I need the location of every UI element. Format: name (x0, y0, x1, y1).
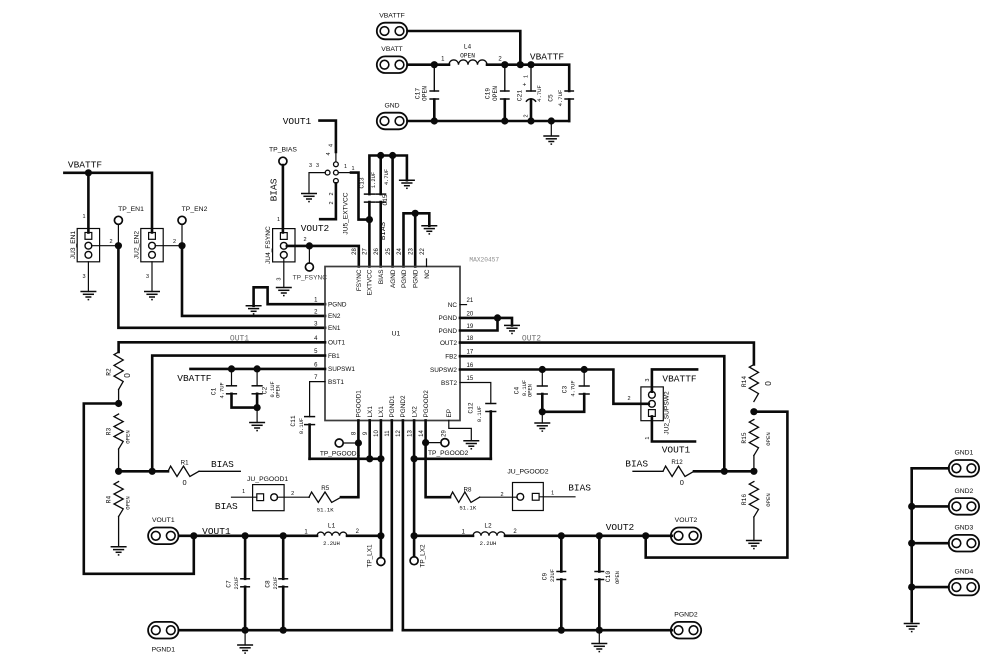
inductor L4 (449, 44, 487, 65)
test point TP_BIAS (269, 147, 297, 166)
wire JU3 pin1 (82, 173, 88, 233)
svg-text:VBATTF: VBATTF (177, 373, 212, 384)
wire JU2_SUPSW2 pin3 VBATTF (645, 369, 697, 391)
svg-text:OPEN: OPEN (765, 432, 772, 445)
wire JU5 pin2 VOUT2 stub (320, 183, 336, 219)
svg-text:AGND: AGND (390, 269, 397, 288)
svg-text:VOUT2: VOUT2 (606, 522, 635, 533)
net label BIAS right (625, 458, 648, 469)
svg-text:0: 0 (123, 373, 132, 378)
capacitor C17 (415, 65, 440, 121)
svg-text:TP_EN2: TP_EN2 (182, 206, 208, 213)
capacitor C2 (252, 369, 282, 408)
wire JU2_SUPSW2 pin1 VOUT1 (645, 416, 695, 441)
svg-text:4: 4 (326, 152, 332, 155)
ground under JU4_FSYNC (276, 258, 292, 295)
jumper JU_PGOOD2 (500, 469, 554, 511)
ground GND bus (904, 624, 920, 632)
capacitor C10 (594, 536, 621, 630)
wire EN2 (155, 224, 325, 316)
wire R5 to JU_PGOOD1 (277, 496, 309, 498)
wire LX2 to L2 (411, 530, 474, 540)
ground top section (543, 136, 559, 144)
svg-text:R5: R5 (321, 485, 329, 492)
svg-text:EXTVCC: EXTVCC (367, 269, 374, 295)
jumper JU5_EXTVCC (309, 144, 355, 235)
svg-text:L2: L2 (484, 522, 492, 529)
net label VOUT1 bottom (202, 526, 231, 537)
ground under JU3_EN1 (80, 262, 96, 300)
svg-text:23: 23 (409, 248, 415, 255)
wire VBATT to L4 (408, 57, 450, 69)
svg-text:+: + (522, 82, 529, 86)
resistor R16 (741, 482, 772, 541)
svg-text:2: 2 (329, 201, 335, 204)
net label VBATTF SUPSW1 (177, 373, 212, 384)
svg-text:FB1: FB1 (328, 353, 340, 360)
svg-text:2.2UH: 2.2UH (480, 540, 497, 547)
svg-text:1.2UF: 1.2UF (371, 172, 377, 188)
svg-text:PGND1: PGND1 (389, 395, 396, 417)
inductor L1 (304, 522, 359, 547)
svg-text:R2: R2 (106, 368, 113, 376)
svg-text:FB2: FB2 (445, 354, 457, 361)
ground under C2 (249, 423, 265, 431)
wire LX1 (310, 420, 385, 535)
svg-text:1: 1 (344, 164, 347, 170)
ground EP (463, 441, 479, 449)
wire PGND pin1 to ground (254, 287, 325, 306)
svg-text:TP_PGOOD2: TP_PGOOD2 (428, 450, 469, 457)
test point TP_FSYNC (293, 246, 328, 281)
IC U1 MAX20457 (314, 248, 499, 437)
svg-text:VOUT1: VOUT1 (283, 116, 312, 127)
connector GND4 (949, 569, 979, 596)
svg-text:TP_LX2: TP_LX2 (420, 544, 427, 568)
wire BST2 to C12 (460, 383, 491, 404)
net label BIAS JU_PGOOD1 (215, 501, 238, 512)
svg-text:L1: L1 (328, 522, 336, 529)
wire LX2 (411, 420, 491, 535)
svg-text:3: 3 (277, 278, 283, 281)
svg-text:PGND: PGND (413, 269, 420, 288)
svg-text:TP_FSYNC: TP_FSYNC (293, 274, 328, 281)
svg-text:EN2: EN2 (328, 313, 341, 320)
svg-text:JU_PGOOD2: JU_PGOOD2 (507, 469, 548, 476)
svg-text:PGOOD2: PGOOD2 (423, 390, 430, 418)
svg-text:27: 27 (363, 248, 369, 255)
svg-text:OPEN: OPEN (276, 385, 282, 398)
connector VBATT (377, 46, 407, 73)
svg-text:2: 2 (303, 237, 306, 243)
test point TP_EN1 (114, 206, 144, 224)
svg-text:VBATTF: VBATTF (662, 373, 697, 384)
svg-text:OUT2: OUT2 (440, 340, 457, 347)
svg-text:SUPSW1: SUPSW1 (328, 366, 355, 373)
svg-text:3: 3 (82, 274, 85, 280)
connector VBATTF (377, 12, 407, 39)
wire VOUT1 net (179, 532, 317, 539)
svg-text:10: 10 (374, 430, 380, 437)
svg-text:C12: C12 (467, 402, 474, 413)
capacitor C9 (542, 536, 567, 630)
svg-text:13: 13 (407, 430, 413, 437)
svg-text:OPEN: OPEN (492, 86, 499, 101)
capacitor C13 (358, 172, 377, 202)
svg-text:1: 1 (242, 489, 245, 495)
wire SUPSW1 (191, 365, 326, 372)
svg-text:4.7UF: 4.7UF (557, 90, 564, 107)
wire VOUT1 to JU5 pin4 (320, 121, 336, 162)
svg-text:C13: C13 (358, 177, 365, 188)
svg-text:C10: C10 (605, 571, 612, 582)
ground under R4 (111, 547, 127, 555)
test point TP_EN2 (178, 206, 208, 224)
svg-text:TP_LX1: TP_LX1 (367, 544, 374, 568)
svg-text:PGND: PGND (328, 302, 347, 309)
svg-text:18: 18 (467, 336, 474, 342)
wire PGOOD1 (341, 420, 362, 497)
capacitor C7 (225, 536, 250, 630)
svg-text:MAX20457: MAX20457 (469, 256, 499, 263)
svg-text:OUT1: OUT1 (328, 340, 345, 347)
svg-text:TP_EN1: TP_EN1 (118, 206, 144, 213)
connector VOUT1 (148, 517, 178, 544)
svg-text:21: 21 (467, 298, 474, 304)
resistor R14 (741, 365, 773, 402)
svg-text:19: 19 (467, 324, 474, 330)
svg-text:VOUT1: VOUT1 (152, 517, 175, 524)
svg-text:2: 2 (291, 491, 294, 497)
net label VOUT2 stub (301, 223, 330, 234)
svg-text:51.1K: 51.1K (317, 507, 334, 514)
ground under C7 (237, 630, 253, 653)
ground under C4 (534, 423, 550, 431)
svg-text:OPEN: OPEN (460, 53, 475, 60)
svg-text:0: 0 (764, 381, 773, 386)
wire VBATTF connector to node (408, 31, 521, 65)
svg-text:PGND2: PGND2 (674, 612, 698, 619)
wire L2 to VOUT2 (505, 532, 672, 539)
svg-text:TP_PGOOD1: TP_PGOOD1 (320, 450, 361, 457)
wire BST1 to C11 (310, 382, 325, 417)
resistor R5 (309, 485, 341, 514)
svg-text:C9: C9 (542, 573, 549, 581)
wire PGND2 rail (403, 627, 672, 634)
svg-text:C21: C21 (517, 90, 524, 101)
ground under JU2_EN2 (144, 262, 160, 300)
resistor R8 (450, 487, 480, 512)
svg-text:JU3_EN1: JU3_EN1 (70, 231, 77, 260)
svg-text:51.1K: 51.1K (459, 505, 476, 512)
svg-text:VOUT2: VOUT2 (301, 223, 330, 234)
wire JU5 pin3 to ground (309, 173, 325, 194)
svg-text:GND2: GND2 (954, 488, 973, 495)
svg-text:22UF: 22UF (550, 569, 556, 582)
svg-text:R1: R1 (181, 460, 189, 467)
svg-text:C7: C7 (225, 580, 232, 588)
capacitor C1 (211, 369, 258, 408)
svg-text:0: 0 (183, 478, 187, 487)
svg-text:JU_PGOOD1: JU_PGOOD1 (247, 476, 288, 483)
connector PGND1 (148, 622, 178, 654)
svg-text:OUT2: OUT2 (522, 335, 541, 344)
node C1 C2 ground junction (254, 404, 261, 423)
node R14 R15 junction (750, 408, 757, 415)
wire EXTVCC (369, 152, 407, 267)
wire PGND1 pin11 (390, 420, 393, 630)
capacitor C8 (265, 536, 289, 630)
svg-text:0: 0 (680, 478, 684, 487)
wire OUT2 (460, 343, 754, 365)
connector PGND2 (671, 612, 701, 639)
svg-text:LX2: LX2 (411, 406, 418, 418)
svg-text:GND1: GND1 (954, 450, 973, 457)
svg-text:C11: C11 (290, 415, 297, 426)
capacitor C4 (514, 370, 548, 412)
svg-text:3: 3 (316, 163, 319, 169)
jumper JU2_EN2 (133, 229, 163, 262)
ground PGND pins 23 24 (421, 226, 437, 234)
jumper JU4_FSYNC (265, 226, 295, 264)
svg-text:R8: R8 (464, 487, 472, 494)
svg-text:R15: R15 (741, 432, 748, 443)
svg-text:26: 26 (374, 248, 380, 255)
wire OUT1 (119, 342, 325, 352)
wire GND rail (408, 117, 570, 136)
test point TP_PGOOD2 (426, 439, 469, 457)
svg-text:C15: C15 (382, 194, 389, 205)
ground AGND rail (399, 180, 415, 188)
wire FB1 (152, 356, 325, 472)
resistor R12 (633, 459, 754, 487)
svg-text:C8: C8 (265, 580, 272, 588)
connector GND1 (949, 450, 979, 477)
resistor R15 (741, 420, 772, 472)
svg-text:OPEN: OPEN (615, 571, 621, 584)
svg-text:R14: R14 (741, 376, 748, 387)
svg-text:0.1UF: 0.1UF (477, 406, 483, 422)
net label OUT2 (522, 335, 541, 344)
net label BIAS pin26 (380, 221, 388, 240)
svg-text:VBATTF: VBATTF (379, 12, 405, 19)
svg-text:GND: GND (384, 102, 399, 109)
svg-text:EN1: EN1 (328, 325, 341, 332)
svg-text:29: 29 (442, 430, 448, 437)
test point TP_LX1 (367, 536, 385, 568)
capacitor C5 (548, 90, 575, 121)
net label OUT1 (230, 334, 249, 343)
svg-text:2: 2 (329, 192, 335, 195)
svg-text:C17: C17 (415, 88, 422, 99)
svg-text:BIAS: BIAS (625, 458, 648, 469)
node R3 R4 junction (115, 468, 168, 475)
capacitor C19 (485, 65, 510, 121)
svg-text:2: 2 (524, 114, 530, 117)
svg-text:OUT1: OUT1 (230, 334, 249, 343)
svg-text:C1: C1 (211, 387, 218, 395)
net label VOUT1 (283, 116, 312, 127)
wire PGND pins 23 24 (404, 210, 430, 267)
ground under C10 (591, 630, 607, 651)
svg-text:4.7UF: 4.7UF (536, 85, 543, 102)
wire EP to ground (449, 420, 472, 440)
capacitor C12 (467, 402, 496, 459)
jumper JU3_EN1 (70, 229, 100, 262)
svg-text:OPEN: OPEN (528, 384, 534, 397)
wire L1 to LX1 (347, 532, 385, 539)
svg-text:0.1UF: 0.1UF (299, 418, 305, 434)
wire PGND2 pin12 (402, 420, 405, 630)
svg-text:11: 11 (385, 430, 391, 437)
svg-text:BIAS: BIAS (268, 178, 279, 201)
svg-text:SUPSW2: SUPSW2 (430, 367, 457, 374)
svg-text:C5: C5 (548, 94, 555, 102)
svg-text:R16: R16 (741, 494, 748, 505)
svg-text:1: 1 (551, 491, 554, 497)
svg-text:C19: C19 (485, 88, 492, 99)
svg-text:4: 4 (329, 144, 335, 147)
resistor R2 (106, 352, 133, 404)
ground PGND pins 20 19 (504, 325, 520, 333)
net label VOUT2 bottom (606, 522, 635, 533)
ground JU5 pin3 (301, 194, 317, 202)
svg-text:LX1: LX1 (378, 406, 385, 418)
connector GND (377, 102, 407, 129)
svg-text:BIAS: BIAS (378, 270, 385, 285)
wire VBATTF left (64, 169, 152, 232)
connector VOUT2 (671, 517, 701, 544)
wire JU_PGOOD2 pin1 BIAS (539, 496, 575, 498)
svg-text:VBATTF: VBATTF (530, 52, 565, 63)
resistor R4 (106, 482, 132, 547)
svg-text:14: 14 (419, 430, 425, 437)
wire AGND (391, 156, 394, 267)
net label BIAS vertical (268, 178, 279, 201)
svg-text:C4: C4 (514, 387, 521, 395)
svg-text:BIAS: BIAS (211, 459, 234, 470)
svg-text:3: 3 (309, 163, 312, 169)
wire EN1 (92, 224, 326, 328)
net label BIAS R1 (211, 459, 234, 470)
svg-text:U1: U1 (392, 331, 401, 338)
svg-text:BST1: BST1 (328, 379, 344, 386)
svg-text:BIAS: BIAS (215, 501, 238, 512)
svg-text:NC: NC (448, 302, 458, 309)
node R15 R16 junction (750, 468, 757, 475)
svg-text:OPEN: OPEN (125, 430, 132, 443)
svg-text:VOUT1: VOUT1 (202, 526, 231, 537)
svg-text:PGND: PGND (401, 269, 408, 288)
svg-text:R3: R3 (106, 428, 113, 436)
svg-text:OPEN: OPEN (422, 86, 429, 101)
test point TP_PGOOD1 (320, 439, 361, 457)
connector GND2 (949, 488, 979, 515)
net label VBATTF right (662, 373, 697, 384)
svg-text:TP_BIAS: TP_BIAS (269, 147, 297, 154)
svg-text:C2: C2 (261, 386, 268, 394)
wire bypass to VOUT1 (84, 404, 194, 574)
wire pin22 NC stub (426, 259, 428, 267)
wire FB2 (460, 356, 728, 475)
svg-text:PGND: PGND (439, 315, 458, 322)
svg-text:2.2UH: 2.2UH (323, 540, 340, 547)
svg-text:3: 3 (645, 379, 651, 382)
svg-text:2: 2 (500, 492, 503, 498)
svg-text:28: 28 (352, 248, 358, 255)
resistor R3 (106, 414, 132, 471)
svg-text:3: 3 (146, 274, 149, 280)
net label BIAS JU_PGOOD2 (568, 482, 591, 493)
wire TP_BIAS to JU4 (277, 165, 283, 232)
svg-text:1: 1 (277, 217, 280, 223)
capacitor C3 (542, 370, 590, 412)
node C4 C3 ground junction (539, 408, 546, 423)
svg-text:24: 24 (397, 248, 403, 255)
jumper JU2_SUPSW2 (641, 387, 671, 435)
svg-text:BIAS: BIAS (380, 221, 388, 240)
wire PGND1 rail (179, 627, 392, 634)
svg-text:NC: NC (424, 269, 431, 279)
svg-text:20: 20 (467, 311, 474, 317)
svg-text:2: 2 (627, 396, 630, 402)
svg-text:GND3: GND3 (954, 525, 973, 532)
wire PGND pins 20 19 to ground (460, 314, 512, 330)
svg-text:JU4_FSYNC: JU4_FSYNC (265, 226, 272, 264)
svg-text:EP: EP (446, 409, 453, 418)
jumper JU_PGOOD1 (242, 476, 294, 511)
svg-text:17: 17 (467, 350, 474, 356)
capacitor C11 (290, 415, 315, 459)
wire R8 to JU_PGOOD2 (480, 496, 518, 498)
svg-text:2: 2 (109, 239, 112, 245)
svg-text:1: 1 (82, 214, 85, 220)
svg-text:4.7UF: 4.7UF (384, 169, 390, 185)
svg-text:16: 16 (467, 363, 474, 369)
svg-text:BIAS: BIAS (568, 482, 591, 493)
svg-text:12: 12 (396, 430, 402, 437)
svg-text:4.7UF: 4.7UF (571, 380, 577, 396)
net label VBATTF (530, 52, 565, 63)
wire JU_PGOOD1 pin1 BIAS (232, 496, 257, 498)
svg-text:22UF: 22UF (273, 577, 279, 590)
wire PGOOD2 (422, 420, 450, 497)
svg-text:4.7UF: 4.7UF (220, 382, 226, 398)
svg-text:VOUT1: VOUT1 (662, 445, 691, 456)
svg-text:PGND2: PGND2 (400, 395, 407, 417)
svg-text:1: 1 (524, 75, 530, 78)
wire FSYNC (287, 237, 359, 267)
svg-text:VBATT: VBATT (381, 46, 402, 53)
wire SUPSW2 (460, 366, 649, 404)
connector GND3 (949, 525, 979, 552)
svg-text:OPEN: OPEN (125, 496, 132, 509)
svg-text:JU2_EN2: JU2_EN2 (133, 231, 140, 260)
svg-text:C3: C3 (562, 386, 569, 394)
capacitor C15 (375, 156, 390, 267)
svg-text:PGOOD1: PGOOD1 (356, 390, 363, 418)
ground under R16 (746, 541, 762, 549)
svg-text:1: 1 (351, 166, 354, 172)
wire VBATTF node rail (487, 57, 569, 92)
svg-text:GND4: GND4 (954, 569, 973, 576)
svg-text:FSYNC: FSYNC (356, 269, 363, 291)
svg-text:22UF: 22UF (234, 577, 240, 590)
svg-text:2: 2 (173, 239, 176, 245)
svg-text:PGND1: PGND1 (152, 647, 176, 654)
inductor L2 (473, 522, 517, 547)
svg-text:VBATTF: VBATTF (68, 159, 103, 170)
